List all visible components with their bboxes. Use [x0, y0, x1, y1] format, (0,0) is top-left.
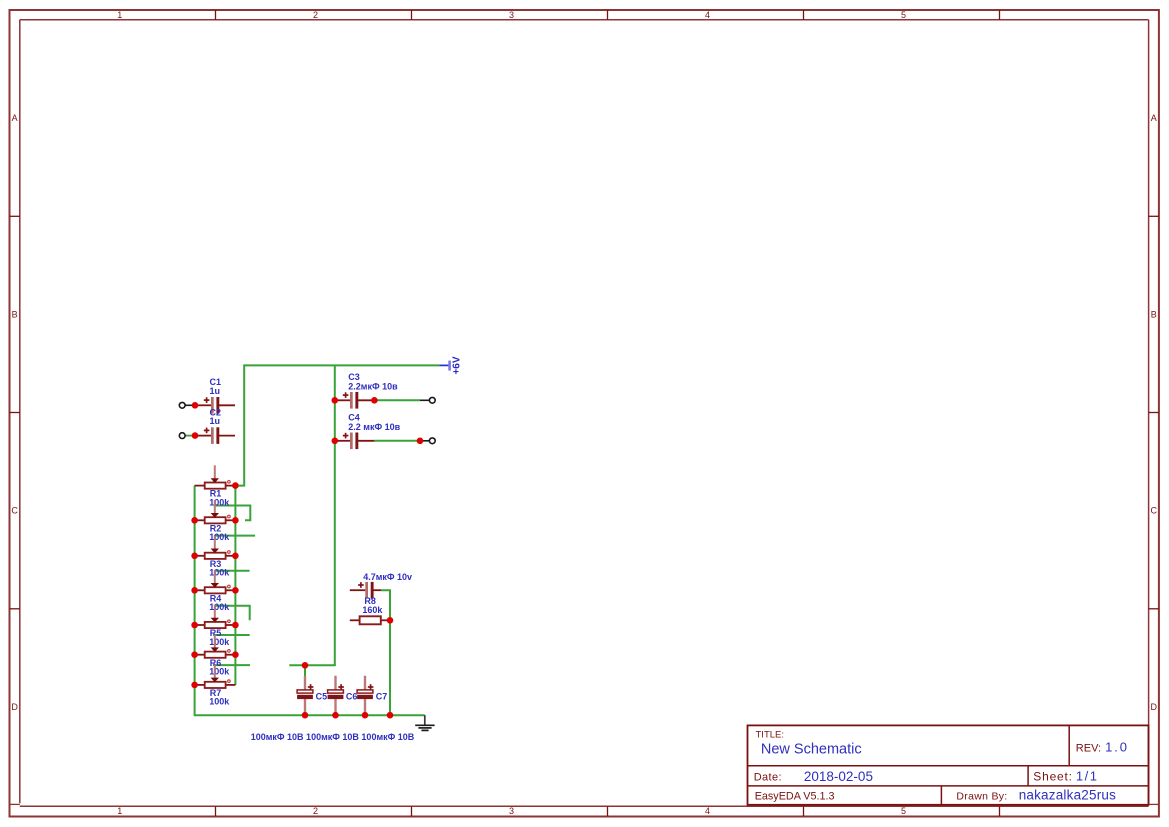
node R6 right	[232, 651, 239, 658]
capacitor C4	[335, 413, 401, 449]
svg-text:2: 2	[313, 806, 318, 816]
node C6 gnd	[332, 712, 339, 719]
svg-text:B: B	[1151, 310, 1157, 320]
svg-text:C5: C5	[316, 691, 328, 701]
wire R7 wiper	[213, 664, 250, 666]
svg-text:4.7мкФ 10v: 4.7мкФ 10v	[363, 572, 412, 582]
svg-text:D: D	[11, 702, 18, 712]
svg-text:1u: 1u	[210, 416, 221, 426]
svg-text:1/1: 1/1	[1076, 769, 1099, 784]
svg-text:2018-02-05: 2018-02-05	[804, 769, 873, 784]
capacitor C6	[328, 676, 358, 716]
node C4 in	[332, 438, 339, 445]
resistor R8	[350, 596, 390, 625]
svg-text:New Schematic: New Schematic	[761, 742, 862, 758]
svg-text:2.2мкФ 10в: 2.2мкФ 10в	[348, 381, 398, 391]
svg-text:A: A	[12, 113, 18, 123]
svg-text:100k: 100k	[209, 568, 230, 578]
wire horizontal at C5 top	[289, 664, 336, 666]
svg-text:4: 4	[705, 10, 710, 20]
resistor R7	[195, 665, 236, 707]
svg-text:nakazalka25rus: nakazalka25rus	[1019, 787, 1116, 802]
pin C2 terminal	[179, 433, 185, 439]
node C4 out	[417, 438, 424, 445]
svg-text:C: C	[1150, 506, 1157, 516]
pin C1 terminal	[179, 402, 185, 408]
svg-text:5: 5	[901, 10, 906, 20]
node C7 gnd	[362, 712, 369, 719]
svg-text:100k: 100k	[209, 637, 230, 647]
capacitor C8 4.7uF	[350, 572, 412, 599]
power flag +6V	[439, 356, 462, 374]
wire R6 wiper	[213, 634, 250, 636]
svg-text:3: 3	[509, 10, 514, 20]
svg-text:4: 4	[705, 806, 710, 816]
capacitor C7	[357, 676, 387, 716]
svg-text:1u: 1u	[210, 386, 221, 396]
wire mid vertical from top rail	[334, 365, 336, 665]
svg-text:C: C	[11, 506, 18, 516]
svg-text:160k: 160k	[362, 605, 383, 615]
node R8 gnd	[387, 712, 394, 719]
resistor R3	[195, 536, 236, 578]
resistor R5	[195, 605, 236, 647]
wire R4 wiper	[214, 570, 250, 572]
wire C4 output	[374, 440, 420, 442]
wire left chain rail and bottom ground rail	[195, 486, 425, 716]
wire R5 wiper	[214, 606, 250, 621]
capacitor C3	[335, 372, 398, 408]
svg-text:TITLE:: TITLE:	[756, 730, 785, 741]
svg-text:Sheet:: Sheet:	[1033, 769, 1073, 783]
node R5 left	[191, 622, 198, 629]
svg-text:2: 2	[313, 10, 318, 20]
capacitor C5	[297, 676, 327, 715]
node R2 right	[232, 517, 239, 524]
svg-text:B: B	[12, 310, 18, 320]
wire right chain rail	[234, 486, 236, 685]
svg-text:+6V: +6V	[452, 356, 463, 374]
wire C3 output	[374, 399, 420, 401]
svg-text:1: 1	[117, 10, 122, 20]
node R7 left	[191, 682, 198, 689]
wire C2 input	[185, 435, 195, 437]
svg-text:Date:: Date:	[754, 771, 782, 783]
svg-text:100k: 100k	[209, 667, 230, 677]
capacitor C2	[195, 407, 235, 444]
pin C4 terminal	[429, 438, 435, 444]
svg-text:2.2 мкФ 10в: 2.2 мкФ 10в	[348, 422, 400, 432]
svg-text:5: 5	[901, 806, 906, 816]
node R5 right	[232, 622, 239, 629]
node R4 left	[191, 587, 198, 594]
resistor R6	[195, 634, 236, 676]
node R8 right	[387, 617, 394, 624]
wire top rail to R1 right	[235, 364, 244, 485]
pin C3 terminal	[429, 397, 435, 403]
svg-text:100k: 100k	[209, 697, 230, 707]
wire R8 vertical to ground rail	[381, 590, 390, 715]
svg-text:100k: 100k	[209, 602, 230, 612]
node C5 gnd	[302, 712, 309, 719]
node C3 in	[332, 397, 339, 404]
capacitor C1	[195, 377, 235, 413]
ground	[415, 715, 434, 730]
svg-text:100k: 100k	[209, 532, 230, 542]
wire +6V top rail	[244, 364, 439, 366]
svg-text:1.0: 1.0	[1105, 740, 1129, 755]
svg-text:1: 1	[117, 806, 122, 816]
node R6 left	[191, 651, 198, 658]
resistor R1	[195, 465, 236, 507]
wire C5 top stub	[304, 665, 306, 676]
node R2 left	[191, 517, 198, 524]
svg-text:REV:: REV:	[1076, 743, 1101, 755]
wire R2 wiper	[215, 506, 251, 521]
node C1 in	[192, 402, 199, 409]
node R1 right	[232, 482, 239, 489]
svg-text:A: A	[1151, 113, 1157, 123]
node C3 out	[371, 397, 378, 404]
svg-text:C7: C7	[376, 691, 388, 701]
title block	[748, 725, 1149, 804]
node R4 right	[232, 587, 239, 594]
svg-text:Drawn By:: Drawn By:	[956, 790, 1007, 802]
svg-text:D: D	[1150, 702, 1157, 712]
wire R3 wiper	[214, 535, 255, 537]
node R3 right	[232, 553, 239, 560]
svg-text:100мкФ 10В 100мкФ 10В 100мкФ 1: 100мкФ 10В 100мкФ 10В 100мкФ 10В	[251, 732, 415, 742]
wire C1 input	[185, 404, 195, 406]
node R3 left	[191, 553, 198, 560]
node C2 in	[192, 432, 199, 439]
svg-text:EasyEDA V5.1.3: EasyEDA V5.1.3	[755, 790, 835, 802]
node C5 top	[302, 662, 309, 669]
svg-text:3: 3	[509, 806, 514, 816]
svg-text:100k: 100k	[209, 497, 230, 507]
svg-text:C6: C6	[346, 691, 358, 701]
resistor R4	[195, 570, 236, 612]
resistor R2	[195, 500, 236, 542]
